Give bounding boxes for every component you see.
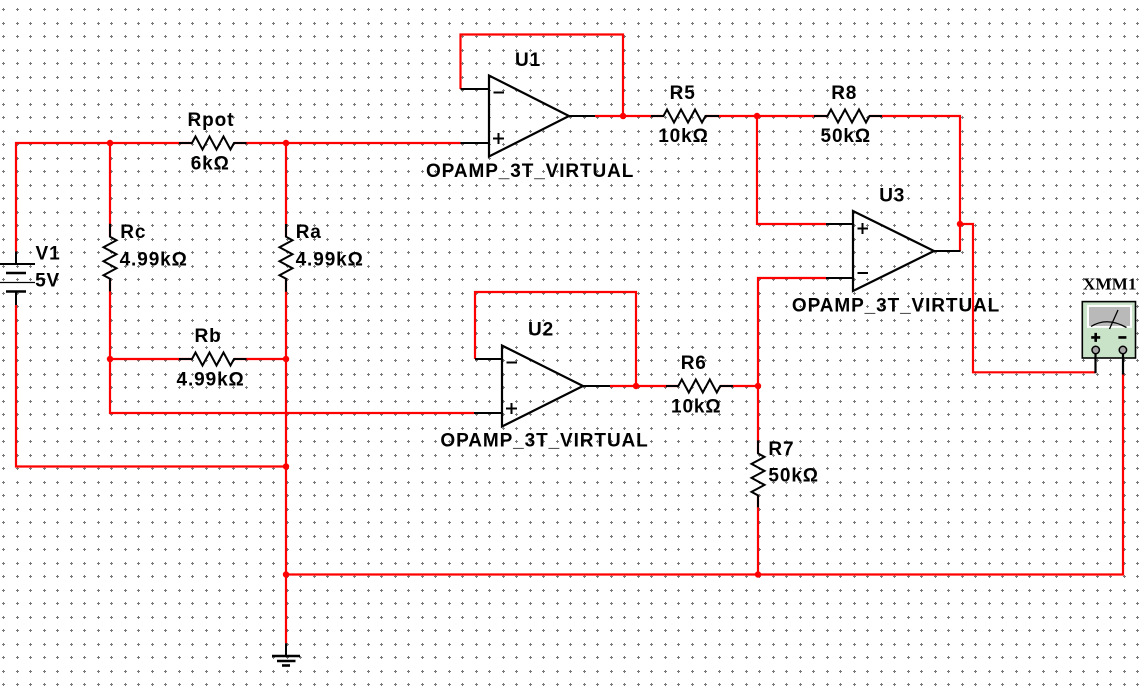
svg-text:OPAMP_3T_VIRTUAL: OPAMP_3T_VIRTUAL [440,431,648,452]
svg-text:4.99kΩ: 4.99kΩ [177,369,245,390]
svg-text:XMM1: XMM1 [1083,274,1137,293]
svg-text:4.99kΩ: 4.99kΩ [296,250,364,271]
svg-text:U1: U1 [515,50,541,71]
svg-text:Ra: Ra [296,222,322,243]
svg-text:OPAMP_3T_VIRTUAL: OPAMP_3T_VIRTUAL [792,296,1000,317]
svg-text:R6: R6 [681,353,707,374]
svg-text:10kΩ: 10kΩ [671,396,722,417]
svg-text:Rpot: Rpot [188,110,235,131]
svg-text:5V: 5V [35,270,60,291]
svg-text:50kΩ: 50kΩ [821,126,872,147]
svg-text:OPAMP_3T_VIRTUAL: OPAMP_3T_VIRTUAL [426,161,634,182]
svg-text:R8: R8 [831,83,857,104]
svg-text:R7: R7 [768,439,794,460]
svg-text:4.99kΩ: 4.99kΩ [120,250,188,271]
svg-text:6kΩ: 6kΩ [191,154,230,175]
svg-text:Rc: Rc [120,222,146,243]
svg-text:U2: U2 [528,320,554,341]
svg-text:V1: V1 [36,243,61,264]
svg-text:50kΩ: 50kΩ [768,465,819,486]
svg-text:R5: R5 [670,83,696,104]
svg-text:10kΩ: 10kΩ [658,126,709,147]
svg-text:Rb: Rb [195,326,222,347]
svg-text:U3: U3 [879,185,905,206]
